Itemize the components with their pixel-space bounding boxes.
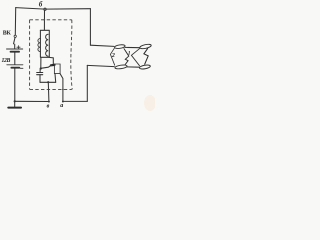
- capacitor plates: [37, 72, 43, 74]
- wire between lower plug caps: [127, 66, 140, 68]
- wire rectangle bottom-left down to inner bus: [54, 74, 57, 83]
- battery minus sign: [20, 67, 23, 69]
- node dot (coil/capacitor/contact junction): [40, 67, 42, 69]
- svg-text:ВК: ВК: [3, 30, 12, 36]
- battery 12V cell 1 long plate: [7, 48, 23, 50]
- terminal a dot: [62, 101, 64, 103]
- spark plug 2 lower cap: [115, 64, 128, 69]
- svg-text:12В: 12В: [2, 58, 11, 64]
- wire battery to ground junction: [14, 69, 16, 102]
- terminal v dot: [48, 101, 50, 103]
- wire coil bottom right to breaker: [49, 57, 53, 64]
- box crossing dot bottom a: [62, 89, 64, 91]
- wire between battery cells: [14, 53, 16, 65]
- wire from dot down to terminal v: [47, 82, 50, 101]
- ground stem: [14, 101, 16, 106]
- capacitor top lead: [39, 69, 41, 72]
- spark plug 2 upper cap: [114, 44, 125, 49]
- wire upper HT lead to plugs: [90, 45, 114, 46]
- spark plug 1 cone: [131, 48, 140, 65]
- inner bottom bus wire: [40, 81, 56, 83]
- dashed distributor box: [30, 20, 73, 90]
- box crossing dot top: [44, 19, 46, 21]
- wire node to contact: [41, 65, 52, 68]
- wire terminal a to right riser: [63, 100, 87, 102]
- background paper: [0, 0, 155, 118]
- ground junction dot: [14, 100, 16, 102]
- wire bottom ground bus to terminal v: [15, 100, 49, 102]
- wire top horizontal bus: [16, 8, 91, 10]
- battery cell 2 short thick plate: [11, 67, 19, 69]
- wire coil left leg down to node: [40, 57, 42, 68]
- svg-text:в: в: [47, 103, 50, 109]
- spark plug 1 lower cap: [139, 64, 150, 69]
- wire left vertical from top corner to switch: [14, 8, 16, 35]
- battery cell 2 long plate: [7, 64, 23, 66]
- coil primary winding arcs right inner: [46, 34, 49, 56]
- wire lower HT lead to plugs: [87, 65, 114, 66]
- svg-text:б: б: [39, 1, 43, 9]
- capacitor bottom lead: [39, 75, 41, 82]
- breaker moving block rectangle: [54, 64, 60, 74]
- terminal b circle on top bus: [44, 8, 46, 10]
- spark plug 2 cone: [110, 48, 114, 65]
- wire top-right vertical drop: [89, 9, 91, 46]
- wire switch to battery: [14, 44, 16, 48]
- coil secondary winding arcs left: [38, 38, 41, 51]
- ground bar: [8, 107, 21, 109]
- spark plug 1 upper cap: [139, 43, 151, 49]
- switch VK pivot circle: [14, 35, 16, 37]
- wire rectangle bottom-right down to terminal a: [60, 74, 63, 102]
- paper stain bottom right: [144, 95, 156, 111]
- junction dot terminal v branch: [47, 81, 49, 83]
- breaker fixed contact blob: [51, 64, 55, 67]
- ignition coil body outline: [40, 30, 49, 57]
- wire right riser up: [86, 65, 88, 101]
- spark plug 2 spark zigzag: [124, 49, 129, 65]
- svg-text:а: а: [60, 103, 63, 109]
- wire between upper plug caps: [125, 46, 140, 48]
- wire terminal b down to coil: [43, 11, 45, 31]
- switch VK lever: [14, 38, 16, 44]
- box crossing dot bottom v: [48, 89, 50, 91]
- battery plus sign: [17, 46, 20, 49]
- battery cell 1 short thick plate: [11, 51, 19, 53]
- spark plug 1 spark zigzag: [144, 49, 148, 65]
- svg-text:2: 2: [111, 53, 115, 59]
- svg-text:1: 1: [128, 51, 131, 57]
